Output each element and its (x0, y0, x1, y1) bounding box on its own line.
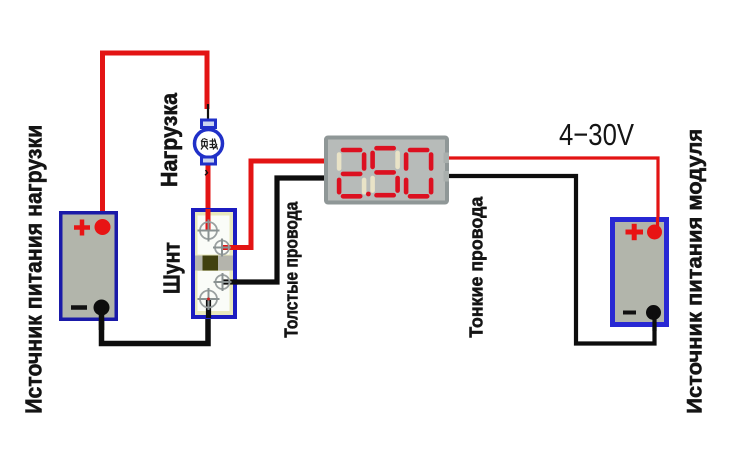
wire W2 overlay: red lead into shunt terminal 1 (206, 209, 211, 231)
shunt R1 upper white pad (198, 216, 230, 255)
shunt R1 terminal 4 screw (198, 288, 220, 310)
shunt R1 terminal 3 screw (214, 273, 232, 291)
shunt R1 resistor element (dark square) (203, 256, 219, 271)
battery BT2 minus sign (623, 311, 636, 315)
battery BT2 - terminal dot (646, 305, 661, 320)
display PV1 frame (326, 138, 447, 203)
load M1 chinese glyph 负 (201, 139, 208, 150)
load M1 top terminal block (202, 120, 216, 128)
shunt R1 body (193, 210, 235, 317)
load M1 bottom terminal block (202, 157, 216, 164)
wire W2: load M1 bottom to shunt R1 terminal 1 (red thick) (206, 162, 211, 233)
display PV1 right connector tab lower (444, 171, 450, 182)
shunt R1 terminal 2 screw (213, 239, 231, 257)
wire W3 overlay: black lead from shunt terminal 4 (206, 299, 211, 318)
wire W6 overlay: red lead through battery BT2 border (656, 217, 659, 230)
battery BT2 + terminal dot (647, 225, 662, 240)
display PV1 digit 1 "2" (339, 150, 364, 196)
battery BT1 minus sign (71, 305, 87, 310)
shunt R1 lower white pad (198, 271, 230, 311)
display PV1 digit 3 "0" (406, 150, 431, 196)
wire W4 overlay: red lead from shunt terminal 2 (222, 245, 238, 250)
wire stub: load M1 bottom lead tick (black) (205, 170, 208, 175)
display PV1 right connector tab upper (444, 153, 450, 164)
shunt R1 terminal 1 screw (198, 220, 220, 242)
load M1 motor body circle (195, 130, 223, 158)
svg-text:Источник питания нагрузки: Источник питания нагрузки (21, 125, 47, 414)
display PV1 digit 2 "5" (373, 148, 398, 195)
battery BT2 plus sign (626, 224, 644, 240)
battery BT1 body (load power supply) (61, 213, 117, 320)
battery BT1 + terminal dot (95, 219, 111, 235)
wire W3: battery BT1 - terminal to shunt R1 terminal 4 (black thick) (102, 298, 209, 344)
wire W1: battery BT1 + terminal up and over to load M1 (red thick) (103, 53, 208, 229)
svg-text:Толстые провода: Толстые провода (281, 201, 302, 338)
wire W3 overlay: black lead through battery BT1 border (99, 308, 105, 330)
battery BT2 body (module power supply) (613, 220, 667, 325)
wire stub: load M1 top lead (black) (207, 104, 209, 119)
load M1 chinese glyph 载 (210, 139, 218, 150)
wire W5: shunt R1 terminal 3 to display PV1 input - (black thick) (223, 178, 327, 282)
svg-text:Нагрузка: Нагрузка (156, 93, 182, 187)
svg-text:Шунт: Шунт (159, 242, 185, 294)
battery BT1 plus sign (74, 220, 90, 236)
battery BT1 - terminal dot (94, 300, 110, 316)
wire W7: display PV1 GND to battery BT2 - terminal (black thin) (447, 176, 655, 344)
display PV1 decimal point (366, 192, 371, 197)
wire W7 overlay: black lead through battery BT2 border (652, 313, 656, 331)
svg-text:Источник питания модуля: Источник питания модуля (683, 129, 707, 414)
wire W6: display PV1 Vcc to battery BT2 + terminal (red thin) (447, 158, 658, 229)
wire W5 overlay: black lead from shunt terminal 3 (223, 279, 239, 284)
svg-text:Тонкие провода: Тонкие провода (466, 196, 487, 338)
shunt R1 resistor band (195, 256, 233, 271)
svg-text:4−30V: 4−30V (559, 117, 634, 152)
wire W4: shunt R1 terminal 2 to display PV1 input + (red thick) (222, 161, 326, 248)
